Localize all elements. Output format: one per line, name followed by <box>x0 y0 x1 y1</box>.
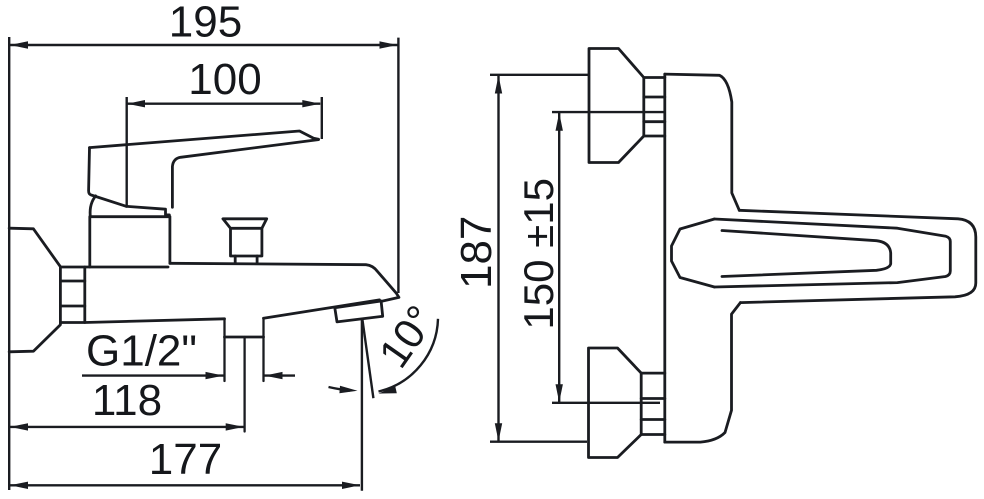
svg-text:100: 100 <box>188 55 261 104</box>
svg-text:177: 177 <box>149 435 222 484</box>
svg-text:195: 195 <box>169 0 242 47</box>
svg-text:187: 187 <box>452 216 501 289</box>
svg-text:G1/2": G1/2" <box>86 327 197 376</box>
svg-text:118: 118 <box>92 376 162 425</box>
svg-text:150 ±15: 150 ±15 <box>515 178 562 330</box>
